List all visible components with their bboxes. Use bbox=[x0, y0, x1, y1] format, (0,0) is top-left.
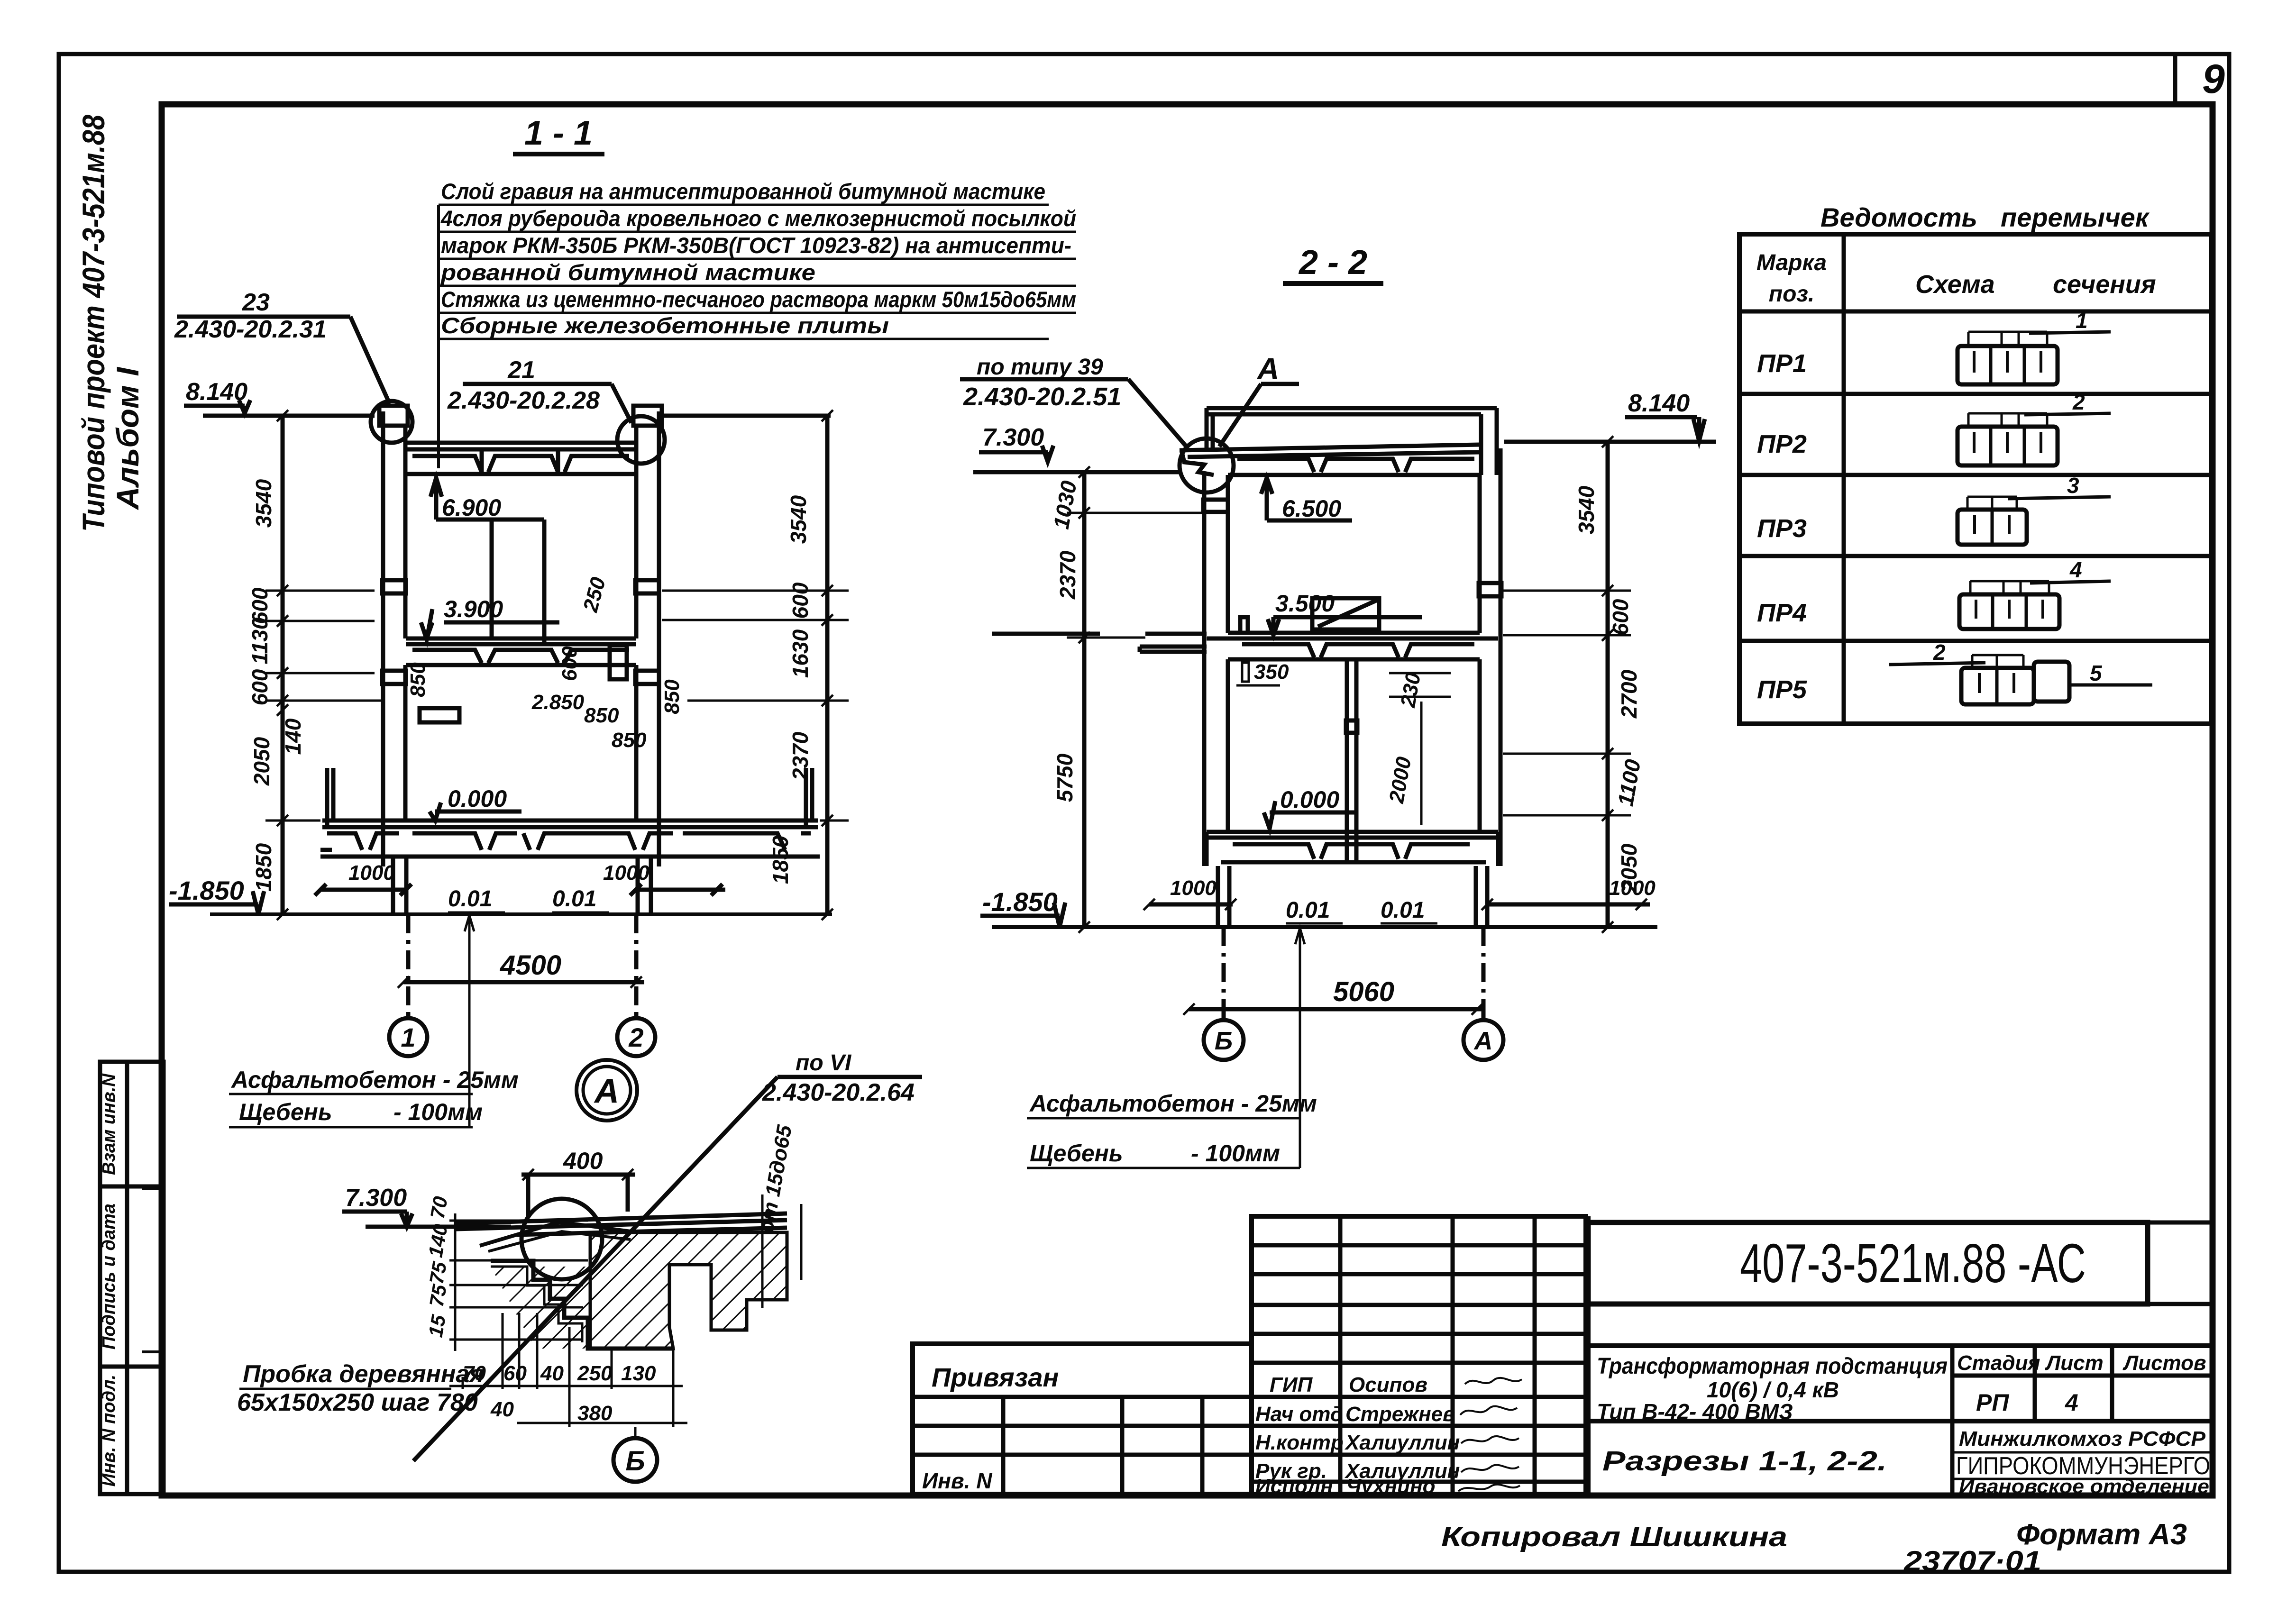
svg-text:ПР4: ПР4 bbox=[1757, 599, 1807, 627]
support posts 2-2 bbox=[1218, 866, 1487, 927]
svg-text:Халиуллин: Халиуллин bbox=[1344, 1431, 1460, 1454]
dim 2000 rotated bbox=[1385, 702, 1421, 825]
callout circle A (detail reference) bbox=[576, 1060, 637, 1121]
svg-text:0.01: 0.01 bbox=[552, 886, 596, 912]
svg-text:Пробка деревянная: Пробка деревянная bbox=[243, 1360, 484, 1388]
svg-text:2.430-20.2.31: 2.430-20.2.31 bbox=[174, 316, 327, 343]
svg-text:Инв. N: Инв. N bbox=[922, 1468, 992, 1493]
leader to ground (2-2) bbox=[1299, 927, 1301, 1168]
section title 2-2 bbox=[1298, 244, 1367, 282]
svg-text:65х150х250 шаг 780: 65х150х250 шаг 780 bbox=[237, 1389, 478, 1416]
svg-text:-1.850: -1.850 bbox=[982, 887, 1058, 917]
svg-text:перемычек: перемычек bbox=[2001, 202, 2150, 232]
leader Пробка деревянная bbox=[237, 1360, 484, 1416]
svg-text:Подпись и дата: Подпись и дата bbox=[99, 1204, 119, 1349]
roof slab entering detail bbox=[456, 1213, 787, 1235]
canopy slab left bbox=[992, 634, 1207, 652]
svg-text:850: 850 bbox=[406, 662, 430, 697]
svg-text:400: 400 bbox=[563, 1148, 603, 1174]
axis circle А bbox=[1464, 1020, 1503, 1060]
svg-text:3540: 3540 bbox=[251, 479, 276, 528]
svg-text:Взам инв.N: Взам инв.N bbox=[99, 1073, 119, 1175]
leader по типу 39 / 2.430-20.2.51 bbox=[963, 355, 1121, 411]
vent stub bbox=[1240, 617, 1248, 633]
svg-text:2700: 2700 bbox=[1617, 669, 1641, 719]
inner border frame bbox=[162, 104, 2213, 1495]
lintel schema PR2 bbox=[1958, 390, 2111, 465]
lintel schema PR5 bbox=[1889, 640, 2152, 704]
svg-text:2.850: 2.850 bbox=[531, 691, 585, 714]
hatched beam region bbox=[491, 1232, 787, 1349]
svg-text:75: 75 bbox=[425, 1260, 451, 1286]
svg-text:1850: 1850 bbox=[768, 835, 793, 884]
right end dim line of detail bbox=[755, 1123, 801, 1308]
table title bbox=[1820, 202, 2150, 232]
svg-text:Чухнино: Чухнино bbox=[1346, 1475, 1436, 1498]
dim 4500 bbox=[398, 950, 644, 988]
svg-text:Лист: Лист bbox=[2045, 1351, 2104, 1375]
signature rows bbox=[1255, 1373, 1460, 1498]
svg-text:Типовой проект 407-3-521м.88: Типовой проект 407-3-521м.88 bbox=[76, 115, 111, 532]
level mark 6.900 bbox=[430, 478, 544, 645]
svg-text:2370: 2370 bbox=[788, 731, 813, 781]
foundation ribbed plates bbox=[320, 768, 820, 857]
level mark 6.500 bbox=[1261, 478, 1352, 522]
svg-text:3540: 3540 bbox=[1574, 485, 1599, 534]
svg-text:РП: РП bbox=[1976, 1389, 2009, 1416]
svg-text:марок РКМ-350Б РКМ-350В(ГОСТ 1: марок РКМ-350Б РКМ-350В(ГОСТ 10923-82) н… bbox=[441, 233, 1071, 258]
svg-text:рованной битумной мастике: рованной битумной мастике bbox=[440, 260, 815, 285]
svg-text:Копировал Шишкина: Копировал Шишкина bbox=[1441, 1522, 1787, 1552]
svg-text:40: 40 bbox=[490, 1398, 514, 1421]
long diagonal leader bbox=[413, 1077, 778, 1461]
ground floor slab 2-2 bbox=[1207, 832, 1498, 866]
svg-text:1: 1 bbox=[2076, 308, 2088, 333]
svg-text:Б: Б bbox=[1215, 1027, 1233, 1055]
svg-text:0.01: 0.01 bbox=[1381, 898, 1425, 923]
notes leader vertical wire bbox=[437, 205, 440, 468]
svg-text:4500: 4500 bbox=[500, 950, 561, 981]
level mark -1.850 bbox=[169, 875, 264, 914]
frame centering marks bbox=[142, 1188, 162, 1352]
level mark 0.000 (2-2) bbox=[1264, 786, 1356, 829]
svg-text:7.300: 7.300 bbox=[982, 424, 1044, 451]
svg-text:60: 60 bbox=[503, 1362, 527, 1385]
level mark -1.850 (2-2) bbox=[980, 887, 1065, 927]
svg-text:5750: 5750 bbox=[1052, 753, 1077, 802]
transformer bbox=[1312, 598, 1379, 629]
leader to ground bbox=[468, 914, 471, 1127]
svg-text:407-3-521м.88 -АС: 407-3-521м.88 -АС bbox=[1740, 1232, 2086, 1294]
node A flag bbox=[1256, 352, 1279, 386]
right wall 2-2 bbox=[1479, 448, 1501, 866]
svg-text:Привязан: Привязан bbox=[932, 1362, 1059, 1392]
parapet block stepped profile bbox=[491, 1261, 673, 1349]
svg-text:0.000: 0.000 bbox=[1280, 786, 1339, 813]
svg-text:5: 5 bbox=[2090, 661, 2103, 685]
lintel schema PR3 bbox=[1958, 473, 2111, 545]
axis circle 2 bbox=[617, 1018, 655, 1056]
roof slab 2-2 bbox=[1180, 445, 1481, 475]
svg-text:Асфальтобетон - 25мм: Асфальтобетон - 25мм bbox=[230, 1067, 519, 1093]
svg-text:1000: 1000 bbox=[603, 861, 649, 884]
right column vertical split bbox=[1586, 1216, 1591, 1494]
svg-text:Асфальтобетон - 25мм: Асфальтобетон - 25мм bbox=[1029, 1090, 1317, 1117]
svg-text:4слоя рубероида кровельного с: 4слоя рубероида кровельного с мелкозерни… bbox=[440, 206, 1076, 231]
svg-text:3540: 3540 bbox=[786, 495, 811, 544]
bottom dim chain of detail bbox=[449, 1313, 687, 1427]
svg-text:600: 600 bbox=[247, 669, 272, 705]
svg-text:Нач отд: Нач отд bbox=[1255, 1403, 1343, 1426]
slope labels 0.01 (2-2) bbox=[1286, 898, 1425, 923]
svg-text:Стадия: Стадия bbox=[1957, 1351, 2040, 1375]
svg-text:Б: Б bbox=[625, 1446, 645, 1477]
svg-text:380: 380 bbox=[577, 1402, 613, 1425]
lintel schema PR4 bbox=[1959, 557, 2111, 629]
svg-text:4: 4 bbox=[2069, 557, 2082, 582]
svg-text:3: 3 bbox=[2067, 473, 2079, 498]
svg-text:1 - 1: 1 - 1 bbox=[524, 114, 593, 152]
svg-text:А: А bbox=[1473, 1027, 1493, 1055]
svg-text:Инв. N подл.: Инв. N подл. bbox=[99, 1375, 119, 1486]
louver opening left room bbox=[420, 708, 459, 722]
callout circle 23 bbox=[371, 401, 412, 443]
lintel schema PR1 bbox=[1958, 308, 2111, 384]
level mark 3.900 bbox=[421, 596, 559, 639]
svg-text:2: 2 bbox=[1933, 640, 1946, 665]
svg-text:Листов: Листов bbox=[2122, 1351, 2206, 1375]
level mark 7.300 bbox=[973, 424, 1180, 472]
svg-text:40: 40 bbox=[540, 1362, 564, 1385]
axis circle 1 bbox=[389, 1018, 427, 1056]
header texts bbox=[1756, 250, 2156, 307]
section title 1-1 bbox=[524, 114, 593, 152]
svg-text:2: 2 bbox=[2072, 390, 2085, 414]
ribbed plates bbox=[412, 456, 629, 472]
svg-text:10(6) / 0,4 кВ: 10(6) / 0,4 кВ bbox=[1707, 1377, 1839, 1402]
leader по VI / 2.430-20.2.64 bbox=[762, 1050, 915, 1106]
svg-text:70: 70 bbox=[426, 1194, 452, 1220]
svg-text:2.430-20.2.28: 2.430-20.2.28 bbox=[447, 387, 600, 414]
axis line 1 bbox=[408, 914, 636, 1019]
level mark 3.500 bbox=[1268, 590, 1422, 635]
svg-text:Альбом I: Альбом I bbox=[110, 366, 145, 511]
road layers note bbox=[230, 1067, 519, 1125]
object name cell bbox=[1588, 1346, 2215, 1424]
svg-text:0.01: 0.01 bbox=[1286, 898, 1330, 923]
svg-text:3.900: 3.900 bbox=[444, 596, 503, 622]
svg-text:ПР2: ПР2 bbox=[1757, 430, 1807, 458]
svg-text:850: 850 bbox=[612, 729, 647, 752]
svg-text:Исполн: Исполн bbox=[1255, 1475, 1333, 1498]
callout circle on eaves bbox=[1180, 438, 1234, 492]
svg-text:1130: 1130 bbox=[247, 617, 272, 664]
dim 400 bbox=[521, 1148, 635, 1218]
svg-text:1000: 1000 bbox=[1170, 876, 1217, 900]
svg-text:Н.контр: Н.контр bbox=[1255, 1431, 1344, 1454]
svg-text:2050: 2050 bbox=[249, 737, 274, 786]
svg-text:75: 75 bbox=[425, 1283, 451, 1309]
svg-text:850: 850 bbox=[584, 704, 619, 727]
svg-text:0.000: 0.000 bbox=[448, 785, 507, 812]
svg-text:Формат А3: Формат А3 bbox=[2016, 1518, 2187, 1551]
svg-text:850: 850 bbox=[660, 679, 684, 714]
svg-text:130: 130 bbox=[621, 1362, 656, 1385]
svg-text:2: 2 bbox=[628, 1022, 643, 1052]
dim 5060 bbox=[1183, 976, 1485, 1015]
leader 21 / 2.430-20.2.28 bbox=[447, 356, 600, 414]
left wall bbox=[379, 406, 408, 866]
svg-text:5060: 5060 bbox=[1333, 976, 1394, 1007]
svg-text:2370: 2370 bbox=[1055, 550, 1080, 600]
duct right room bbox=[610, 645, 627, 679]
svg-text:1630: 1630 bbox=[788, 629, 813, 678]
stage/sheet header bbox=[1952, 1346, 2215, 1421]
support posts under walls bbox=[393, 858, 651, 914]
bottom annotations bbox=[1441, 1518, 2187, 1577]
svg-text:1: 1 bbox=[401, 1022, 415, 1052]
lower floor slab bbox=[322, 821, 818, 827]
svg-text:Ведомость: Ведомость bbox=[1820, 202, 1977, 232]
axis lines bbox=[1224, 927, 1483, 1019]
right dimension chain 2-2 bbox=[1503, 436, 1646, 933]
sloping flashing bbox=[480, 1222, 638, 1246]
svg-text:3.500: 3.500 bbox=[1275, 590, 1335, 617]
axis circle Б bbox=[1204, 1020, 1244, 1060]
svg-text:21: 21 bbox=[507, 356, 535, 384]
roof slab bbox=[406, 443, 636, 474]
left dimension chain 2-2 bbox=[1049, 466, 1204, 933]
svg-text:-1.850: -1.850 bbox=[169, 875, 244, 905]
upper floor slab bbox=[406, 638, 636, 665]
middle revision grid bbox=[1252, 1216, 1586, 1498]
svg-text:6.900: 6.900 bbox=[442, 494, 501, 521]
ground line bbox=[210, 912, 832, 916]
svg-text:Сборные железобетонные плиты: Сборные железобетонные плиты bbox=[441, 313, 889, 338]
svg-text:0.01: 0.01 bbox=[448, 886, 492, 912]
svg-text:2.430-20.2.64: 2.430-20.2.64 bbox=[762, 1079, 915, 1106]
dims 1000 (2-2) bbox=[1143, 876, 1656, 910]
dim 1000 left / right bbox=[315, 861, 725, 895]
right wall bbox=[633, 406, 662, 866]
ground line 2-2 bbox=[992, 925, 1657, 929]
svg-text:23707·01: 23707·01 bbox=[1903, 1545, 2041, 1577]
callout circle on flashing bbox=[521, 1199, 602, 1279]
dim 230 rotated bbox=[1389, 671, 1451, 710]
svg-text:Марка: Марка bbox=[1756, 250, 1827, 275]
left attachment box bbox=[913, 1344, 1252, 1494]
svg-text:350: 350 bbox=[1254, 660, 1289, 684]
level mark 8.140 right bbox=[1504, 390, 1716, 442]
left wall 2-2 bbox=[1203, 472, 1228, 866]
designation banner 407-3-521м.88-АС bbox=[1588, 1222, 2215, 1304]
svg-text:Осипов: Осипов bbox=[1349, 1373, 1427, 1396]
roofing notes text block bbox=[440, 179, 1076, 338]
svg-text:1000: 1000 bbox=[348, 861, 395, 884]
level mark 7.300 (detail) bbox=[342, 1184, 511, 1227]
parapet top band bbox=[1207, 408, 1497, 451]
svg-text:Щебень: Щебень bbox=[239, 1099, 332, 1125]
svg-text:600: 600 bbox=[558, 646, 581, 681]
partition below floor bbox=[1346, 659, 1357, 864]
svg-text:Тип В-42- 400 ВМЗ: Тип В-42- 400 ВМЗ bbox=[1597, 1399, 1793, 1424]
left margin rotated title bbox=[76, 115, 145, 532]
level mark 8.140 left bbox=[186, 378, 247, 406]
svg-text:15: 15 bbox=[424, 1313, 450, 1339]
extension lines bbox=[265, 591, 382, 821]
svg-text:Разрезы 1-1, 2-2.: Разрезы 1-1, 2-2. bbox=[1602, 1446, 1887, 1477]
svg-text:А: А bbox=[594, 1072, 619, 1110]
svg-text:ПР1: ПР1 bbox=[1757, 349, 1807, 378]
svg-text:2050: 2050 bbox=[1617, 843, 1641, 893]
svg-text:140: 140 bbox=[281, 718, 305, 755]
organization cell bbox=[1952, 1421, 2213, 1497]
svg-text:сечения: сечения bbox=[2053, 270, 2156, 299]
svg-text:Стяжка из цементно-песчаного р: Стяжка из цементно-песчаного раствора ма… bbox=[441, 287, 1076, 312]
level line 8.140 bbox=[203, 414, 375, 418]
left margin stamp boxes bbox=[99, 1062, 164, 1494]
svg-text:Слой гравия на антисептированн: Слой гравия на антисептированной битумно… bbox=[441, 179, 1045, 204]
drawing name cell bbox=[1602, 1446, 1887, 1477]
svg-text:А: А bbox=[1256, 352, 1279, 386]
svg-text:поз.: поз. bbox=[1769, 282, 1814, 307]
wall joint dashes bbox=[382, 580, 406, 593]
table frame bbox=[1739, 234, 2212, 724]
small dim 350 bbox=[1236, 660, 1289, 685]
note underlines bbox=[439, 205, 1076, 339]
svg-text:2.430-20.2.51: 2.430-20.2.51 bbox=[963, 383, 1121, 411]
small interior dims bbox=[406, 574, 684, 752]
right dimension chain bbox=[662, 410, 849, 920]
svg-text:по VI: по VI bbox=[796, 1050, 852, 1076]
svg-text:ПР5: ПР5 bbox=[1757, 675, 1807, 704]
interior shaft partition bbox=[490, 520, 494, 639]
svg-text:Минжилкомхоз РСФСР: Минжилкомхоз РСФСР bbox=[1959, 1427, 2206, 1450]
callout circle 21 bbox=[617, 416, 665, 464]
svg-text:23: 23 bbox=[242, 289, 270, 316]
svg-text:7.300: 7.300 bbox=[345, 1184, 407, 1212]
node circle Б bbox=[613, 1438, 657, 1482]
leader 23 / 2.430-20.2.31 bbox=[174, 289, 327, 343]
left vertical dim chain of detail bbox=[424, 1194, 588, 1351]
svg-text:4: 4 bbox=[2065, 1389, 2078, 1416]
svg-text:1850: 1850 bbox=[251, 843, 276, 892]
road layers note (2-2) bbox=[1029, 1090, 1317, 1167]
svg-text:600: 600 bbox=[1608, 599, 1633, 635]
svg-text:ПР3: ПР3 bbox=[1757, 514, 1807, 543]
svg-text:Трансформаторная подстанция: Трансформаторная подстанция bbox=[1597, 1354, 1948, 1379]
svg-text:9: 9 bbox=[2202, 56, 2225, 102]
row labels bbox=[1757, 349, 1807, 704]
svg-text:2 - 2: 2 - 2 bbox=[1298, 244, 1367, 282]
left dimension chain bbox=[247, 410, 382, 920]
signatures squiggles bbox=[1458, 1378, 1522, 1491]
eaves flashing inside circle bbox=[1181, 450, 1214, 475]
svg-text:8.140: 8.140 bbox=[1628, 390, 1690, 417]
svg-text:по типу 39: по типу 39 bbox=[977, 355, 1103, 380]
svg-text:600: 600 bbox=[788, 582, 813, 619]
sheet number box with 9 bbox=[2175, 55, 2225, 105]
floor slab 2-2 bbox=[1207, 633, 1498, 659]
svg-text:6.500: 6.500 bbox=[1282, 495, 1341, 522]
slope labels 0.01 bbox=[448, 886, 596, 912]
right parapet bbox=[1481, 408, 1497, 475]
svg-text:250: 250 bbox=[577, 1362, 613, 1385]
svg-text:ГИП: ГИП bbox=[1270, 1373, 1313, 1396]
level mark 0.000 bbox=[430, 785, 521, 821]
svg-text:Схема: Схема bbox=[1915, 270, 1995, 299]
svg-text:Щебень: Щебень bbox=[1030, 1140, 1123, 1167]
svg-text:Стрежнев: Стрежнев bbox=[1345, 1403, 1455, 1426]
svg-text:- 100мм: - 100мм bbox=[1191, 1140, 1280, 1167]
